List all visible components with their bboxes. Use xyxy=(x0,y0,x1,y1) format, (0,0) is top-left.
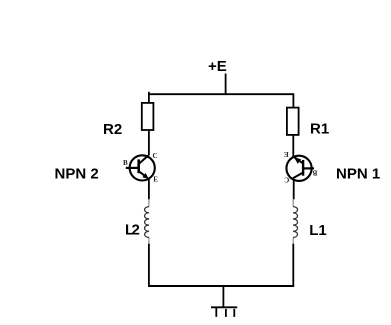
wire bottom rail xyxy=(148,285,294,287)
svg-text:B: B xyxy=(312,168,317,176)
svg-text:NPN 1: NPN 1 xyxy=(336,166,380,183)
wire right drop to R1 xyxy=(292,93,294,107)
transistor Q2 (NPN 2) xyxy=(123,152,158,184)
svg-text:B: B xyxy=(123,159,128,167)
svg-text:L1: L1 xyxy=(309,222,327,239)
wire R1 to Q1 emitter xyxy=(292,135,294,157)
svg-text:C: C xyxy=(284,175,289,183)
transistor Q1 (NPN 1), mirrored/rotated symbol xyxy=(284,150,318,183)
svg-text:C: C xyxy=(153,152,158,160)
wire L1 to bottom rail xyxy=(292,244,294,286)
wire L2 to bottom rail xyxy=(148,244,150,286)
svg-text:R2: R2 xyxy=(103,121,122,138)
svg-text:E: E xyxy=(153,176,158,184)
wire R2 to Q2 collector xyxy=(148,130,150,155)
resistor R1 xyxy=(287,108,299,135)
svg-text:+E: +E xyxy=(208,58,227,75)
ground xyxy=(211,307,237,317)
wire Q2 emitter to L2 xyxy=(148,179,150,200)
inductor L1 xyxy=(293,199,297,244)
wire ground stem xyxy=(222,286,224,307)
svg-text:R1: R1 xyxy=(310,121,329,138)
inductor L2 xyxy=(145,199,149,244)
svg-text:L2: L2 xyxy=(125,222,140,239)
wire left drop to R2 xyxy=(148,92,150,103)
wire Q1 collector to L1 xyxy=(293,180,295,200)
wire +E stem xyxy=(225,74,227,95)
svg-text:E: E xyxy=(284,150,289,158)
wire top rail xyxy=(149,93,294,95)
svg-text:NPN 2: NPN 2 xyxy=(55,166,99,183)
resistor R2 xyxy=(142,103,154,130)
